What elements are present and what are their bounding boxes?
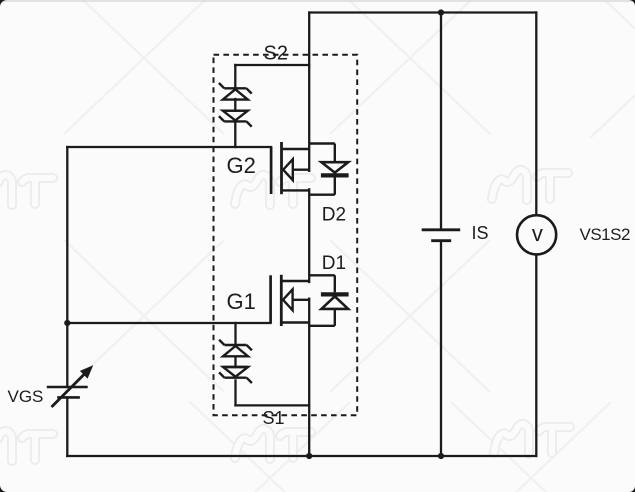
wire G2 node xyxy=(67,146,271,148)
VGS arrow head xyxy=(80,365,93,378)
junction dot G1 / left rail xyxy=(64,320,70,326)
wire top zener chain lower lead xyxy=(234,121,236,147)
Q1 source stub xyxy=(281,321,309,323)
top border line xyxy=(0,0,635,2)
wire center vertical segment Q1-to-S1 xyxy=(308,299,310,456)
diode D1 body diode of Q1 xyxy=(309,275,348,326)
wire battery branch lower xyxy=(440,241,442,456)
Q2 channel bar xyxy=(280,142,283,194)
svg-text:IS: IS xyxy=(472,223,489,243)
svg-text:S2: S2 xyxy=(264,43,288,65)
Q1 body stub xyxy=(293,299,310,301)
diode D2 body diode of Q2 xyxy=(309,144,348,195)
Q2 body stub xyxy=(293,168,309,170)
Q1 channel bar xyxy=(280,275,283,326)
transistor Q2 (top MOSFET) xyxy=(271,142,309,194)
Q1 body arrow xyxy=(283,289,293,310)
svg-text:VS1S2: VS1S2 xyxy=(580,225,630,244)
transistor Q1 (bottom MOSFET) xyxy=(271,275,310,326)
Q2 body arrow xyxy=(283,159,293,180)
zener diode ZD3 (bottom pair, cathode up) xyxy=(219,340,252,357)
corner mark bottom-right xyxy=(629,486,635,492)
corner mark bottom-left xyxy=(0,485,7,492)
zener diode ZD1 (top pair, cathode up) xyxy=(219,83,252,100)
watermark X lattice xyxy=(64,240,224,392)
wire S1 node xyxy=(236,404,310,406)
wire top zener chain upper lead xyxy=(234,65,236,88)
wire center vertical segment S2-to-Q2 xyxy=(308,13,310,171)
zener diode ZD2 (top pair, cathode down) xyxy=(219,111,252,127)
wire left rail upper (G2/G1 to VGS) xyxy=(66,147,68,387)
svg-text:D1: D1 xyxy=(322,253,346,274)
wire right branch upper (voltmeter top lead) xyxy=(535,13,537,216)
svg-text:VGS: VGS xyxy=(8,387,44,406)
Q1 drain stub xyxy=(281,280,309,282)
junction dot bottom rail / center xyxy=(306,453,312,459)
zener diode ZD4 (bottom pair, cathode down) xyxy=(219,367,252,383)
wire bottom zener chain lower lead xyxy=(234,380,236,405)
wire right branch lower (voltmeter bottom lead) xyxy=(535,254,537,456)
svg-text:S1: S1 xyxy=(263,408,285,428)
variable source VGS xyxy=(47,373,88,408)
wire G1 node xyxy=(67,322,270,324)
voltmeter VS1S2 xyxy=(517,215,556,254)
wire top rail xyxy=(309,11,536,13)
battery source IS xyxy=(422,230,461,241)
svg-text:G1: G1 xyxy=(227,289,256,314)
watermark logo instances xyxy=(492,170,568,200)
wire battery branch upper xyxy=(440,13,442,230)
wire bottom zener chain upper lead xyxy=(234,323,236,345)
Q2 source stub xyxy=(282,148,310,150)
wire top zener chain middle stub xyxy=(234,99,236,111)
wire S2 node xyxy=(235,64,309,66)
wire bottom zener chain middle stub xyxy=(234,357,236,367)
junction dot top rail / battery xyxy=(438,9,444,15)
corner mark top-right xyxy=(629,0,635,6)
svg-text:D2: D2 xyxy=(322,204,346,225)
wire bottom rail xyxy=(67,455,536,457)
Q2 gate bar xyxy=(270,147,273,194)
junction dot bottom rail / battery xyxy=(438,453,444,459)
svg-text:G2: G2 xyxy=(227,153,256,178)
wire center vertical segment D2-D1 xyxy=(308,189,310,282)
svg-text:v: v xyxy=(532,221,543,246)
corner mark top-left xyxy=(0,0,7,7)
wire left rail lower (VGS to bottom rail) xyxy=(66,397,68,456)
Q2 drain stub xyxy=(282,189,310,191)
Q1 gate bar xyxy=(269,275,272,323)
dashed enclosure box xyxy=(214,55,358,415)
